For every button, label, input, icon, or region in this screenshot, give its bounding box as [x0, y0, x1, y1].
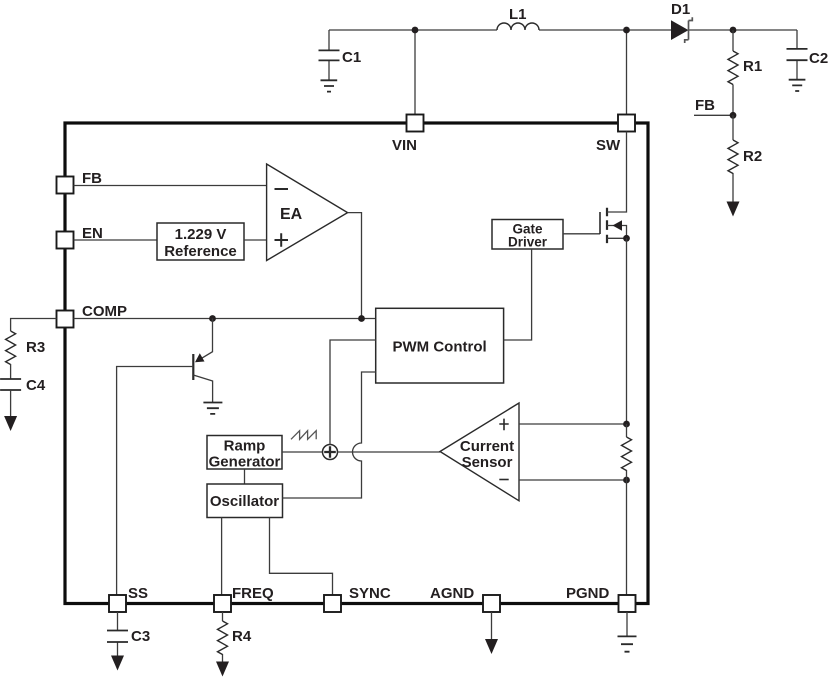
- ground arrow under AGND: [485, 639, 498, 654]
- svg-text:Ramp: Ramp: [224, 438, 266, 455]
- svg-text:Current: Current: [460, 438, 514, 455]
- label R4: [232, 628, 252, 645]
- ground under PGND: [618, 636, 637, 651]
- block Gate Driver: [492, 220, 563, 250]
- block Oscillator: [207, 484, 283, 518]
- ground arrow under C3: [111, 656, 124, 671]
- wire ramp output to summer: [282, 451, 323, 453]
- resistor R1: [728, 30, 738, 115]
- wire PGND down: [626, 612, 628, 636]
- wire PWM to Gate Driver: [504, 249, 532, 340]
- resistor Rsense: [622, 424, 632, 480]
- pin COMP: [57, 311, 74, 328]
- svg-text:SW: SW: [596, 137, 621, 154]
- diode D1: [671, 17, 692, 43]
- svg-text:C2: C2: [809, 50, 828, 67]
- wire SW pin up: [626, 30, 628, 115]
- label PGND: [566, 585, 610, 602]
- wire source down to sense resistor: [626, 238, 628, 424]
- svg-text:R4: R4: [232, 628, 252, 645]
- node SW junction: [623, 27, 630, 34]
- node sense resistor bottom: [623, 477, 630, 484]
- ground arrow under R4: [216, 662, 229, 677]
- label EN pin: [82, 225, 103, 242]
- ground under C1: [321, 80, 338, 91]
- wire COMP pin out to R3: [11, 319, 57, 332]
- svg-text:R2: R2: [743, 148, 762, 165]
- ground under C2: [789, 80, 806, 91]
- svg-text:FB: FB: [82, 170, 102, 187]
- wire top rail C1 to L1: [329, 29, 497, 31]
- node EA-COMP junction: [358, 315, 365, 322]
- pin SYNC: [324, 595, 341, 612]
- capacitor C3: [107, 612, 128, 656]
- svg-text:Generator: Generator: [209, 454, 281, 471]
- svg-text:PGND: PGND: [566, 585, 610, 602]
- label SW: [596, 137, 621, 154]
- svg-text:VIN: VIN: [392, 137, 417, 154]
- op-amp Current Sensor: [440, 403, 519, 501]
- svg-text:Reference: Reference: [164, 243, 237, 260]
- svg-text:EA: EA: [280, 206, 303, 223]
- label C1: [342, 49, 361, 66]
- summing junction: [323, 445, 338, 460]
- transistor Q2 NMOS: [600, 132, 627, 244]
- capacitor C2: [787, 30, 808, 80]
- svg-text:Driver: Driver: [508, 235, 548, 250]
- svg-text:D1: D1: [671, 1, 690, 18]
- pin FB: [57, 177, 74, 194]
- label SS: [128, 585, 148, 602]
- pin SW: [618, 115, 635, 132]
- svg-text:1.229 V: 1.229 V: [175, 226, 227, 243]
- wire oscillator to FREQ pin: [221, 518, 223, 596]
- wire L1 to diode: [539, 29, 671, 31]
- wire Gate Driver to gate: [563, 233, 600, 235]
- label C4: [26, 377, 46, 394]
- wire VIN pin up: [414, 30, 416, 115]
- svg-text:Sensor: Sensor: [462, 454, 513, 471]
- IC block outline: [65, 123, 648, 604]
- sawtooth symbol: [291, 431, 316, 440]
- wire oscillator to SYNC pin: [270, 518, 333, 596]
- svg-text:SYNC: SYNC: [349, 585, 391, 602]
- wire EN pin to reference: [74, 239, 158, 241]
- label COMP pin: [82, 303, 127, 320]
- wire diode to C2 corner: [689, 29, 797, 31]
- block PWM Control: [376, 308, 504, 383]
- label R1: [743, 58, 762, 75]
- wire current sensor plus input: [519, 423, 627, 425]
- svg-text:SS: SS: [128, 585, 148, 602]
- wire ramp to oscillator: [244, 469, 246, 484]
- resistor R4: [218, 612, 228, 662]
- wire EA output down to COMP line: [348, 213, 362, 319]
- reference box U2 1.229V: [157, 223, 244, 260]
- svg-text:FREQ: FREQ: [232, 585, 274, 602]
- label FB node: [695, 97, 715, 114]
- label C3: [131, 628, 150, 645]
- label VIN: [392, 137, 417, 154]
- wire AGND down: [491, 612, 493, 639]
- capacitor C4: [0, 379, 21, 416]
- label R2: [743, 148, 762, 165]
- pin EN: [57, 232, 74, 249]
- node sense resistor top: [623, 421, 630, 428]
- pin SS: [109, 595, 126, 612]
- label L1: [509, 6, 527, 23]
- label R3: [26, 339, 45, 356]
- wire oscillator to PWM with hop: [283, 372, 376, 498]
- wire FB node stub: [694, 114, 733, 116]
- pin VIN: [407, 115, 424, 132]
- svg-text:AGND: AGND: [430, 585, 474, 602]
- label FREQ: [232, 585, 274, 602]
- ground under Q1: [203, 403, 222, 414]
- node COMP-BJT junction: [209, 315, 216, 322]
- wire current sensor minus input: [519, 479, 627, 481]
- svg-text:C3: C3: [131, 628, 150, 645]
- op-amp EA: [267, 164, 348, 261]
- svg-text:PWM Control: PWM Control: [393, 339, 487, 356]
- label C2: [809, 50, 828, 67]
- node diode output junction: [730, 27, 737, 34]
- capacitor C1: [319, 30, 340, 80]
- node VIN junction: [412, 27, 419, 34]
- ground arrow under R2: [727, 202, 740, 217]
- pin AGND: [483, 595, 500, 612]
- transistor Q1 PNP: [193, 319, 212, 403]
- ground arrow under C4: [4, 416, 17, 431]
- label D1: [671, 1, 690, 18]
- label FB pin: [82, 170, 102, 187]
- wire COMP line: [74, 318, 376, 320]
- svg-text:C4: C4: [26, 377, 46, 394]
- wire summer to current sensor output: [338, 451, 441, 453]
- wire FB pin to EA minus input: [74, 185, 267, 187]
- svg-text:FB: FB: [695, 97, 715, 114]
- svg-text:R1: R1: [743, 58, 762, 75]
- svg-text:Oscillator: Oscillator: [210, 493, 279, 510]
- wire summer up to PWM: [330, 340, 376, 445]
- node FB junction: [730, 112, 737, 119]
- svg-text:COMP: COMP: [82, 303, 127, 320]
- resistor R3: [6, 331, 16, 379]
- wire reference to EA plus input: [244, 239, 267, 241]
- svg-text:C1: C1: [342, 49, 361, 66]
- label AGND: [430, 585, 474, 602]
- wire sense bottom to PGND: [626, 480, 628, 595]
- pin FREQ: [214, 595, 231, 612]
- block Ramp Generator: [207, 436, 282, 471]
- pin PGND: [619, 595, 636, 612]
- svg-text:L1: L1: [509, 6, 527, 23]
- svg-text:R3: R3: [26, 339, 45, 356]
- label SYNC: [349, 585, 391, 602]
- resistor R2: [728, 115, 738, 201]
- wire Q1 base to SS: [117, 367, 194, 596]
- inductor L1: [497, 23, 539, 30]
- node source junction: [623, 235, 630, 242]
